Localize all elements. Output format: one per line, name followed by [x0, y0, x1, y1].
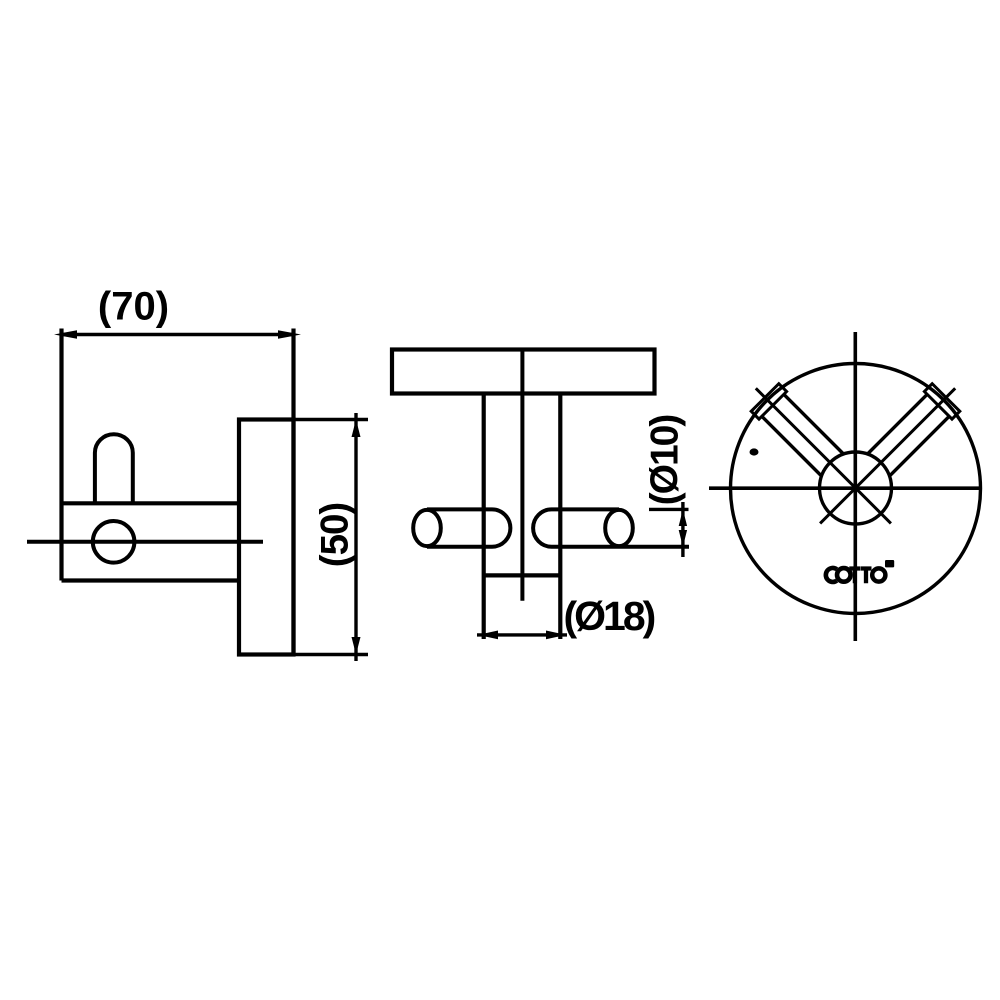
- front view: right pin end ellipse: [605, 510, 633, 546]
- front view: right pin top line: [552, 507, 620, 511]
- front view: left pin bottom line: [427, 545, 492, 549]
- svg-text:(Ø18): (Ø18): [564, 593, 655, 639]
- front view: mounting flange rectangle: [392, 350, 655, 394]
- side view: screw hole circle: [93, 521, 135, 563]
- front view: stem right edge / extension line: [558, 394, 562, 640]
- front view: left pin rounded cap: [492, 509, 510, 546]
- front view: right pin bottom line: [552, 545, 690, 549]
- top view: left pin lower edge: [762, 416, 822, 476]
- side view: dim 50 top tick: [294, 418, 369, 421]
- top view: cotto brand logo letter o2: [872, 568, 885, 581]
- top view: hub inner circle: [820, 452, 892, 524]
- side view: dim 70 left arrowhead: [54, 330, 77, 339]
- front view: dim 10 down arrowhead: [679, 530, 687, 547]
- front view: right pin rounded cap: [533, 509, 551, 546]
- top view: horizontal centerline: [709, 486, 982, 490]
- svg-text:(50): (50): [314, 503, 357, 567]
- top view: cotto brand logo letter o1: [837, 568, 851, 582]
- top view: right pin axis line: [820, 388, 955, 523]
- side view: hook arm top edge: [62, 501, 240, 505]
- top view: left pin axis line: [756, 388, 891, 523]
- side view: right extension line / wall plate right edge: [291, 329, 295, 655]
- top view: right pin lower edge: [890, 416, 950, 476]
- front view: stem left edge / extension line: [482, 394, 486, 640]
- svg-text:(Ø10): (Ø10): [644, 415, 687, 506]
- side view: dim 50 vertical line: [354, 413, 357, 661]
- top view: cotto brand logo letter t2: [861, 566, 872, 583]
- top view: registered trademark square: [885, 560, 894, 567]
- svg-text:(70): (70): [98, 285, 169, 329]
- top view: left pin upper edge: [784, 394, 844, 454]
- side view: left extension line / hook arm left edge: [59, 329, 63, 581]
- front view: dim 18 right arrowhead: [546, 631, 566, 640]
- side view: horizontal centerline: [27, 540, 263, 544]
- top view: small ink dot: [750, 448, 759, 455]
- front view: vertical centerline: [520, 350, 524, 601]
- side view: dimension line 70: [62, 333, 294, 336]
- side view: dim 50 down arrowhead: [352, 637, 361, 655]
- side view: hook arm bottom edge: [62, 578, 240, 582]
- side view: wall plate outline: [239, 420, 294, 655]
- top view: faceplate outer circle: [731, 364, 981, 614]
- top view: cotto brand logo letter c: [826, 568, 837, 582]
- front view: dim 10 top tick: [649, 508, 689, 511]
- top view: right pin upper edge: [868, 394, 928, 454]
- front view: dim 18 left arrowhead: [478, 631, 498, 640]
- top view: vertical centerline: [853, 332, 857, 641]
- front view: dim 10 up arrowhead: [679, 509, 687, 526]
- front view: left pin end ellipse: [413, 510, 441, 546]
- side view: dim 50 bottom tick: [294, 653, 369, 656]
- front view: dim 18 line: [477, 633, 567, 636]
- front view: left pin top line: [427, 507, 492, 511]
- top view: right pin end cap: [924, 384, 959, 419]
- front view: dim 10 vertical line: [681, 502, 684, 557]
- front view: stem bottom edge: [484, 573, 561, 577]
- side view: dim 70 right arrowhead: [278, 330, 301, 339]
- top view: cotto brand logo letter t1: [849, 566, 860, 583]
- side view: hook pin with rounded top: [95, 434, 133, 503]
- top view: left pin end cap: [751, 384, 786, 419]
- side view: dim 50 up arrowhead: [352, 420, 361, 438]
